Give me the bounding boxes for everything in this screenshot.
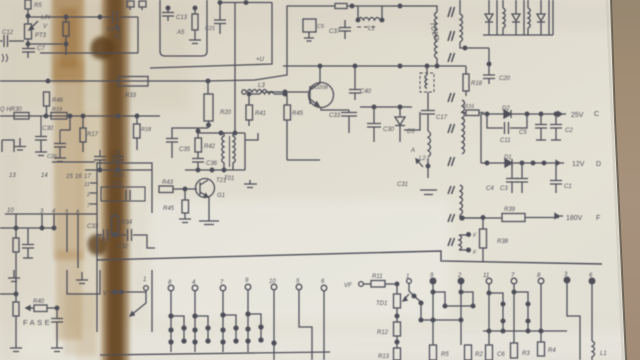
wire y162: [52, 161, 95, 163]
capacitor C2: [550, 114, 562, 140]
module box right: [97, 162, 152, 332]
capacitor C17: [421, 92, 435, 131]
diode D1 rail 12V: [481, 159, 564, 167]
resistor R40: [26, 305, 59, 312]
svg-text:FASE: FASE: [23, 318, 52, 327]
svg-text:L1: L1: [368, 26, 375, 32]
capacitor C30: [367, 107, 381, 142]
resistor R41: [246, 92, 253, 126]
potentiometer PT3: [25, 16, 39, 46]
svg-text:2: 2: [86, 192, 90, 198]
svg-text:F: F: [596, 215, 600, 222]
svg-text:11: 11: [483, 273, 489, 279]
wire x152: [151, 270, 153, 332]
svg-text:R20: R20: [220, 110, 232, 116]
wire bus y17: [28, 15, 138, 19]
svg-text:L2: L2: [419, 156, 426, 162]
svg-text:C13: C13: [176, 15, 188, 21]
wire drive line 1: [150, 3, 272, 69]
wire left edge: [0, 293, 16, 295]
diode rectifier cell 1: [483, 0, 553, 35]
trimmer TD1: [394, 284, 410, 318]
resistor R13: [394, 342, 401, 360]
capacitor C4: [506, 163, 518, 193]
svg-text:R36: R36: [113, 173, 125, 179]
svg-text:C36: C36: [206, 161, 218, 167]
resistor R12: [394, 316, 401, 344]
svg-text:25V: 25V: [571, 112, 584, 119]
resistor R4: [538, 342, 545, 356]
capacitor C41 fase: [51, 308, 63, 352]
svg-text:C26: C26: [47, 154, 58, 160]
resistor HR30: [14, 113, 29, 120]
resistor R18: [463, 66, 469, 96]
ground top-left low: [8, 270, 20, 282]
svg-text:PT3: PT3: [35, 33, 47, 39]
svg-text:C6: C6: [107, 27, 115, 33]
svg-text:C5: C5: [317, 24, 325, 30]
wire divider: [97, 251, 602, 264]
svg-text:TD1: TD1: [376, 301, 387, 307]
wire drop x70: [60, 116, 70, 130]
ground cluster: [35, 152, 47, 156]
svg-text:R39: R39: [504, 207, 516, 213]
svg-text:R33: R33: [125, 93, 137, 99]
svg-text:C35: C35: [179, 147, 191, 153]
svg-text:10: 10: [7, 208, 14, 214]
resistor R5: [25, 0, 31, 18]
capacitor C33b: [97, 229, 117, 241]
connector pin 5: [296, 284, 312, 360]
wire 180V row: [462, 216, 502, 220]
svg-text:16: 16: [75, 174, 82, 180]
svg-text:12V: 12V: [572, 161, 585, 168]
svg-text:D1: D1: [504, 155, 512, 161]
wire bus y116: [0, 114, 160, 118]
pin 2 stub: [90, 192, 97, 194]
svg-text:R42: R42: [204, 144, 216, 150]
svg-text:13: 13: [9, 173, 16, 179]
svg-text:C3: C3: [500, 186, 508, 192]
svg-text:L3: L3: [258, 83, 265, 89]
dirty tint between stains: [76, 0, 108, 360]
capacitor cluster left: [2, 138, 26, 152]
svg-text:C12: C12: [2, 30, 14, 36]
svg-text:R13: R13: [378, 354, 390, 360]
svg-text:R17: R17: [87, 132, 99, 138]
svg-text:R5: R5: [441, 352, 449, 358]
transformer winding F: [459, 233, 470, 252]
arrow node A: [416, 159, 423, 167]
wire node: [28, 43, 63, 45]
svg-text:11: 11: [84, 182, 90, 188]
connector pin 2: [433, 278, 475, 345]
svg-text:C21: C21: [205, 26, 215, 32]
capacitor C13: [162, 6, 174, 21]
node VF2: [359, 282, 371, 287]
wire +U bus y66: [283, 64, 466, 68]
svg-text:R45: R45: [292, 111, 304, 117]
wire long vertical x235: [234, 3, 236, 132]
resistor R47: [10, 294, 22, 352]
svg-text:R16: R16: [464, 104, 475, 110]
pin 11 stub: [90, 182, 97, 184]
capacitor C6: [113, 11, 118, 23]
svg-text:R12: R12: [377, 330, 389, 336]
capacitor C12: [0, 35, 24, 47]
right-edge brown table background: [611, 0, 640, 360]
svg-text:R4: R4: [548, 348, 556, 354]
svg-text:1: 1: [143, 277, 146, 283]
connector pin 10: [271, 284, 277, 360]
resistor R18b: [134, 116, 141, 150]
resistor R3: [511, 343, 518, 358]
capacitor C46: [112, 150, 124, 170]
paper edge line: [611, 0, 626, 360]
svg-text:17: 17: [84, 174, 91, 180]
wire y228: [0, 227, 54, 229]
svg-text:C: C: [594, 111, 599, 118]
wire rail link: [480, 114, 482, 163]
svg-text:D5: D5: [407, 129, 415, 135]
resistor R48: [13, 228, 19, 296]
transformer T01P primary: [435, 12, 438, 66]
dashed box winding: [420, 66, 434, 92]
stain B: dark vertical streak: [102, 0, 129, 360]
svg-text:Q HR30: Q HR30: [0, 107, 22, 113]
resistor R39: [502, 214, 563, 222]
connector pin 1: [407, 279, 423, 322]
paren marks: [2, 54, 8, 62]
capacitor C37: [339, 20, 351, 39]
socket drops: [14, 214, 78, 268]
svg-text:PJ: PJ: [114, 35, 122, 41]
svg-text:C31: C31: [112, 181, 122, 187]
svg-text:+U: +U: [256, 57, 265, 63]
box C5: [303, 19, 316, 41]
capacitor C48: [22, 228, 34, 258]
capacitor C5b: [535, 114, 547, 140]
svg-text:C6: C6: [497, 352, 505, 358]
svg-text:C17: C17: [436, 115, 448, 121]
svg-text:D: D: [596, 161, 601, 168]
svg-text:C37: C37: [329, 29, 341, 35]
wire socket line y214: [5, 213, 97, 215]
svg-text:L1: L1: [600, 351, 607, 357]
resistor R20: [204, 79, 213, 128]
box C31 loop: [101, 187, 145, 201]
capacitor C35: [166, 139, 178, 159]
connector pin 6b: [589, 278, 595, 341]
diode D2 rail 25V: [481, 110, 566, 118]
capacitor C7: [22, 44, 35, 58]
svg-text:C32: C32: [117, 244, 129, 250]
svg-text:A5: A5: [176, 30, 185, 36]
pin 7 stub: [90, 203, 97, 205]
svg-text:BU208: BU208: [311, 85, 329, 91]
wire corner C6 drop: [40, 17, 138, 53]
inductor L1: [356, 6, 384, 27]
capacitor C36: [192, 159, 204, 171]
capacitor C20: [483, 48, 495, 84]
transistor T21: [196, 179, 220, 225]
resistor R19: [51, 113, 67, 120]
svg-text:T21: T21: [216, 178, 226, 184]
svg-text:C33: C33: [329, 113, 341, 119]
arrow PJ: [116, 25, 120, 33]
svg-text:C40: C40: [360, 89, 372, 95]
wire bus y107: [360, 105, 412, 109]
svg-text:D2: D2: [502, 106, 510, 112]
svg-text:C7: C7: [37, 46, 45, 52]
resistor C6b: [486, 345, 493, 360]
resistor R21: [335, 4, 437, 13]
svg-text:R11: R11: [372, 274, 383, 280]
svg-text:R41: R41: [255, 111, 266, 117]
stain blob upper: [91, 36, 115, 59]
svg-text:VF: VF: [344, 283, 352, 289]
svg-text:R46: R46: [52, 98, 64, 104]
resistor R11: [371, 281, 399, 288]
svg-text:A: A: [410, 148, 415, 154]
transistor BU208: [309, 66, 350, 110]
wire osc mesh: [172, 128, 208, 138]
svg-text:R34: R34: [121, 220, 133, 226]
capacitor C11: [487, 114, 527, 134]
transformer core: [448, 7, 455, 246]
transformer secondary low: [460, 185, 483, 220]
inductor L2: [426, 131, 430, 178]
svg-text:10: 10: [269, 279, 276, 285]
wire osc bottom y170: [185, 133, 245, 172]
svg-text:R2: R2: [475, 352, 483, 358]
transformer T01: [222, 133, 236, 170]
svg-text:R5: R5: [34, 3, 42, 9]
connector pin 7: [220, 285, 238, 352]
wire bottom bus: [100, 352, 330, 355]
inductor filter 2: [528, 0, 530, 35]
svg-text:180V: 180V: [566, 215, 583, 222]
capacitor C21: [214, 3, 226, 35]
svg-text:C11: C11: [500, 138, 511, 144]
resistor R17: [80, 116, 86, 152]
connector pin 9b: [421, 278, 447, 345]
resistor R5b: [430, 345, 437, 360]
resistor R45c: [179, 189, 191, 223]
svg-text:C31: C31: [397, 182, 408, 188]
capacitor C33: [341, 110, 357, 133]
resistor R33: [118, 77, 148, 87]
node VF input: [242, 90, 246, 94]
trimmer block top: [127, 1, 146, 10]
capacitor C32: [115, 229, 155, 248]
wire bus 331: [483, 329, 567, 333]
capacitor C1: [550, 163, 562, 193]
capacitor C26: [54, 130, 66, 162]
svg-text:R45: R45: [163, 206, 175, 212]
module box A5: [160, 0, 207, 56]
capacitor C45: [94, 150, 106, 170]
svg-text:R38: R38: [497, 239, 509, 245]
svg-text:R18: R18: [471, 81, 483, 87]
resistor R45b: [284, 94, 291, 160]
inductor filter 1: [503, 0, 505, 35]
connector pin 9: [245, 284, 263, 352]
stain blob lower: [88, 234, 108, 255]
wire osc top y133: [198, 131, 245, 135]
diode rectifier cell 2: [512, 0, 524, 35]
resistor R34: [112, 213, 119, 235]
wire to R41: [245, 133, 258, 140]
wire top links: [218, 1, 272, 5]
wire drive line 2: [208, 6, 335, 81]
svg-text:C4: C4: [486, 186, 494, 192]
resistor R42: [195, 133, 202, 158]
wire y94 L3b: [249, 92, 287, 96]
capacitor C30b: [35, 116, 47, 152]
diode D5: [395, 107, 420, 142]
connector pin 7b: [511, 278, 530, 343]
resistor R38: [480, 218, 487, 263]
inductor L3: [247, 90, 308, 94]
capacitor C40: [349, 66, 361, 100]
stain A: light vertical streak: [52, 0, 84, 340]
resistor A5: [189, 6, 201, 43]
svg-text:C5: C5: [519, 130, 527, 136]
svg-text:C30: C30: [42, 126, 54, 132]
svg-text:C30: C30: [383, 127, 395, 133]
connector pin 3b: [564, 277, 580, 360]
box with ground: [67, 270, 100, 294]
svg-text:R19: R19: [52, 107, 62, 113]
svg-text:LIN: LIN: [41, 15, 51, 21]
svg-text:R3: R3: [522, 351, 530, 357]
diode rectifier cell 3: [537, 0, 553, 35]
svg-text:1: 1: [406, 274, 409, 280]
resistor R16: [461, 110, 484, 116]
connector pin 8b: [538, 278, 544, 342]
svg-text:15: 15: [66, 174, 73, 180]
resistor R2b: [465, 345, 472, 360]
connector pin 4: [192, 285, 210, 352]
svg-text:R18: R18: [141, 127, 152, 133]
svg-text:C1: C1: [564, 184, 572, 190]
transformer secondary mid: [462, 100, 465, 154]
resistor R46: [44, 92, 50, 116]
ground C31: [420, 190, 437, 195]
svg-text:C20: C20: [499, 76, 511, 82]
svg-text:2: 2: [457, 273, 462, 279]
node 1 left: [130, 286, 148, 316]
svg-text:C2: C2: [565, 128, 573, 134]
wire bus y81: [0, 79, 208, 83]
connector pin 11b: [486, 278, 505, 345]
inductor L1b: [592, 341, 595, 360]
connector pin 6a: [321, 285, 327, 360]
svg-text:R40: R40: [33, 299, 45, 305]
transformer secondary top: [460, 0, 489, 50]
wire V bus: [109, 290, 146, 294]
svg-text:C33: C33: [87, 224, 99, 230]
wire emitter rail: [287, 159, 320, 161]
svg-text:R43: R43: [162, 180, 174, 186]
resistor R43: [159, 186, 197, 193]
connector pin 8: [168, 285, 186, 352]
svg-text:14: 14: [41, 173, 48, 179]
ground top right: [244, 180, 257, 188]
capacitor C3: [516, 163, 528, 193]
resistor R8: [63, 17, 69, 55]
svg-text:G1: G1: [217, 193, 225, 199]
wire y170: [85, 168, 152, 172]
